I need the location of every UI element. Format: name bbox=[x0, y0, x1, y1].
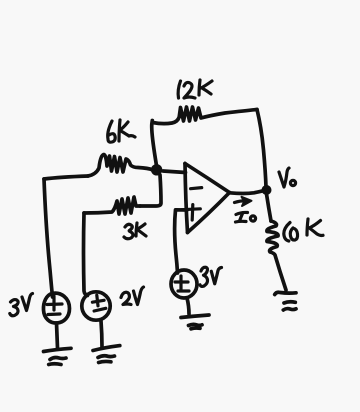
V3 plus sign bbox=[175, 276, 188, 289]
label 6K bbox=[108, 120, 135, 142]
wire 3K down to V2 bbox=[84, 213, 88, 296]
label 12K bbox=[178, 80, 212, 98]
node A (inverting input junction) bbox=[151, 164, 162, 175]
ground right bbox=[275, 292, 296, 310]
V3 minus sign bbox=[178, 289, 189, 292]
op-amp minus sign bbox=[191, 188, 202, 189]
V1 minus sign bbox=[48, 312, 60, 316]
wire V3 to ground bbox=[187, 298, 189, 314]
wire feedback right vertical (12K down to output node) bbox=[257, 110, 266, 188]
ground left bbox=[44, 348, 72, 364]
ground left-2 bbox=[93, 346, 120, 363]
resistor R2 3K bbox=[84, 197, 140, 214]
wire node A to op-amp inverting input bbox=[163, 171, 186, 173]
wire output node down to 60K bbox=[267, 194, 272, 221]
wire V1 to ground bbox=[57, 323, 58, 348]
resistor R_f 12K bbox=[153, 107, 258, 124]
voltage source V3 3V bbox=[171, 270, 197, 298]
wire left branch horizontal bbox=[44, 176, 88, 179]
label 60K bbox=[284, 219, 323, 241]
wire op-amp non-inverting input to V3 bbox=[175, 210, 187, 273]
node Vo (output) bbox=[262, 185, 272, 195]
label Io bbox=[236, 212, 256, 222]
label 2V bbox=[121, 287, 144, 305]
arrow Io bbox=[235, 197, 252, 206]
voltage source V2 2V bbox=[82, 292, 110, 320]
V1 plus sign bbox=[47, 296, 62, 310]
label Vo bbox=[279, 168, 296, 187]
ground middle bbox=[181, 315, 209, 329]
op-amp U1 bbox=[185, 164, 230, 233]
resistor R1 6K bbox=[88, 155, 153, 177]
resistor RL 60K bbox=[267, 221, 286, 290]
wire left vertical down to V1 bbox=[44, 179, 53, 297]
V2 minus sign bbox=[94, 308, 106, 311]
label 3V (V3) bbox=[200, 267, 222, 286]
V2 plus sign bbox=[92, 295, 104, 306]
voltage source V1 3V bbox=[43, 293, 69, 323]
label 3K bbox=[124, 223, 146, 239]
wire op-amp output bbox=[230, 191, 264, 194]
wire V2 to ground bbox=[101, 321, 102, 347]
wire feedback left vertical (node A up to 12K) bbox=[152, 121, 157, 170]
op-amp plus sign bbox=[182, 205, 200, 220]
wire node A down to 3K bbox=[140, 175, 161, 206]
label 3V (V1) bbox=[10, 294, 33, 316]
